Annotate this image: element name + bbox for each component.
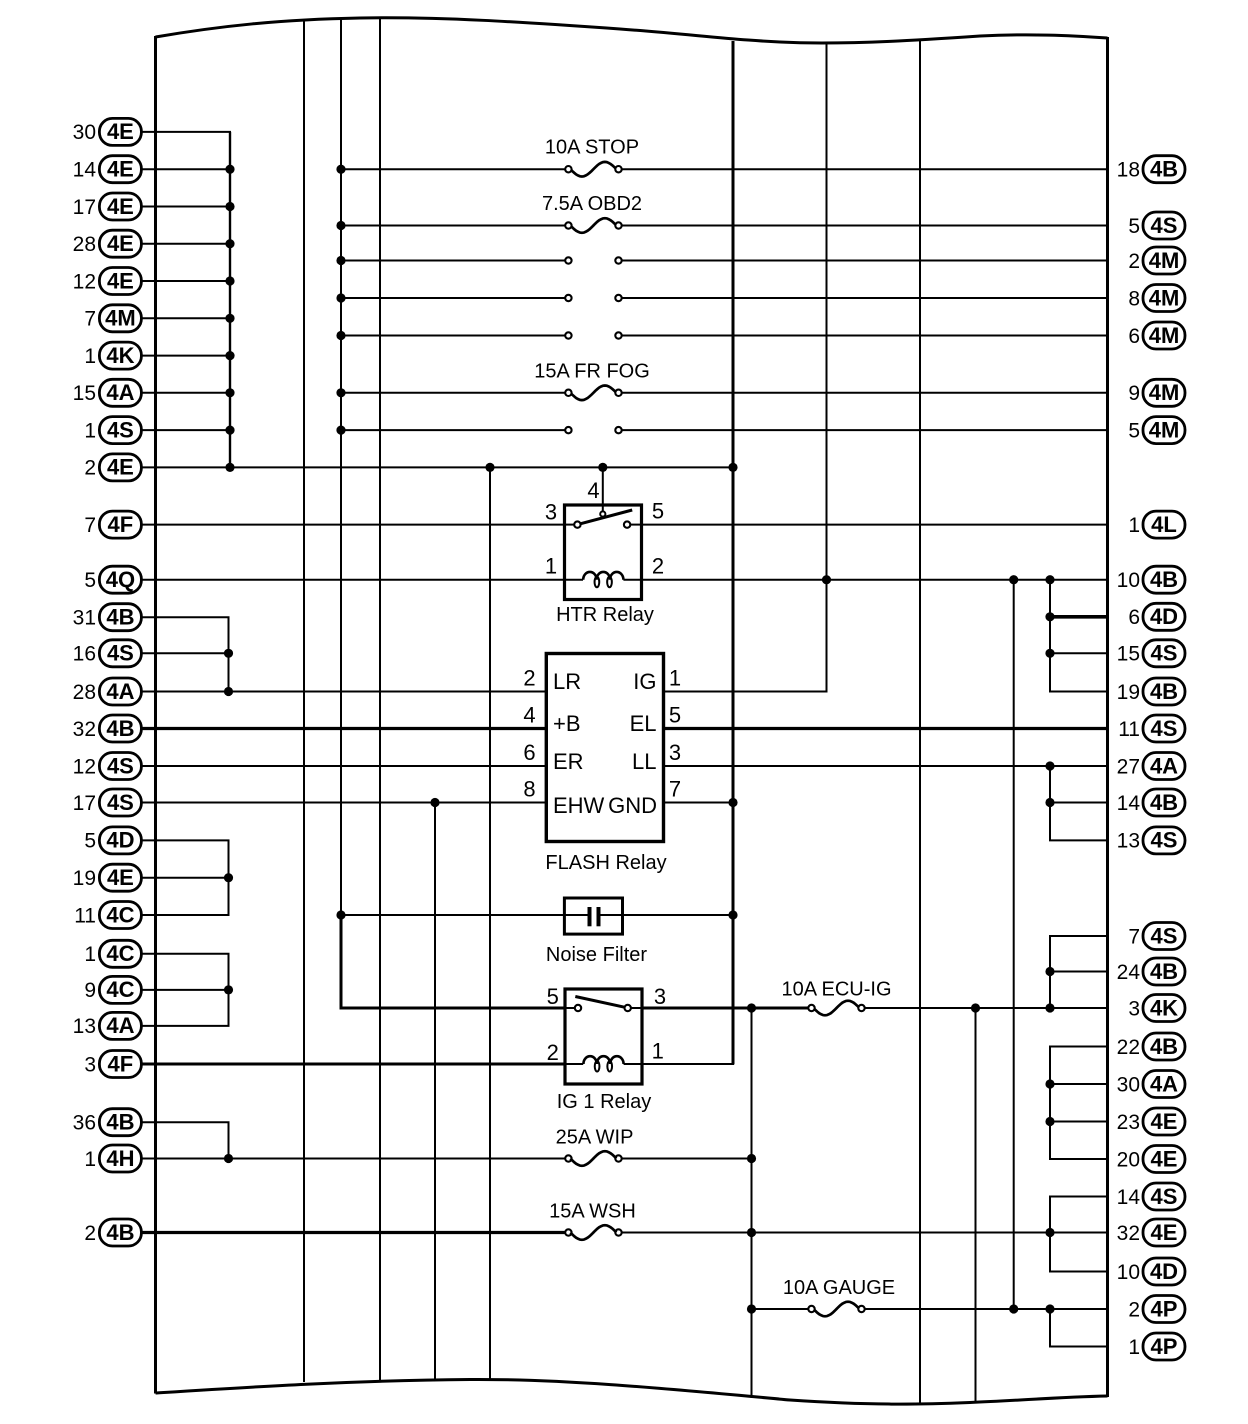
svg-text:23: 23: [1117, 1111, 1140, 1134]
wire HTR relay pin 4 from 2 4E row: [602, 467, 604, 514]
svg-text:1: 1: [84, 419, 96, 442]
wire 15 4S stub: [1049, 652, 1108, 654]
svg-text:4H: 4H: [106, 1146, 134, 1171]
svg-text:24: 24: [1117, 961, 1141, 984]
svg-text:6: 6: [523, 740, 535, 765]
fuse element fuse 15A FR FOG row: [570, 386, 616, 401]
wire empty fuse socket row (6 4M) left segment: [341, 335, 568, 337]
svg-text:4E: 4E: [107, 231, 134, 256]
wire fuse 15A FR FOG row left segment: [341, 392, 568, 394]
junction ECU-IG row / bracket B3: [1045, 1003, 1054, 1012]
terminal circle empty fuse socket row (8 4M) right: [615, 295, 621, 301]
connector 3 4K (R) y=1008.0: [1128, 995, 1185, 1022]
connector 3 4F (L) y=1064.0: [84, 1051, 141, 1078]
terminal circle empty fuse socket row (2 4M) left: [565, 257, 571, 263]
wire empty fuse socket row (8 4M) left segment: [341, 297, 568, 299]
wire fuse 15A WSH to 32 4E: [619, 1232, 1108, 1234]
svg-text:7: 7: [84, 514, 96, 537]
svg-text:2: 2: [84, 1222, 96, 1245]
connector 10 4D (R) y=1271.5: [1117, 1258, 1185, 1285]
svg-text:4E: 4E: [107, 194, 134, 219]
wire noise filter to V733: [600, 914, 733, 916]
connector 30 4A (R) y=1084.0: [1117, 1071, 1185, 1098]
wire vertical trunk V380 (pass-through top to bottom): [379, 18, 381, 1380]
junction V341 y=392.8: [336, 388, 345, 397]
svg-text:HTR Relay: HTR Relay: [556, 604, 654, 626]
junction bracket B1 6 4D: [1045, 612, 1054, 621]
svg-text:4M: 4M: [1149, 248, 1180, 273]
svg-text:17: 17: [73, 792, 96, 815]
wire empty fuse socket row (8 4M) right segment: [619, 297, 1108, 299]
wire vertical V826 + FLASH relay IG pin feed: [664, 42, 827, 692]
svg-text:19: 19: [73, 867, 96, 890]
connector 17 4S (L) y=802.5: [73, 789, 142, 816]
connector 5 4M (R) y=430.1: [1128, 417, 1185, 444]
svg-text:7: 7: [84, 308, 96, 331]
junction bracket A3 9 4C: [224, 985, 233, 994]
wire 2 4E row (to V733): [142, 466, 734, 468]
svg-text:2: 2: [1128, 1298, 1140, 1321]
svg-text:3: 3: [654, 984, 666, 1009]
connector 1 4L (R) y=524.6: [1128, 511, 1185, 538]
svg-text:4: 4: [587, 478, 599, 503]
wire 5 4Q row to HTR relay pin 1: [142, 579, 565, 581]
wire 23 4E stub: [1049, 1121, 1108, 1123]
junction bracket A1 y=653.3: [224, 649, 233, 658]
terminal circle 10A ECU-IG right: [858, 1005, 864, 1011]
wire 6 4D stub (bold): [1049, 615, 1108, 619]
svg-text:12: 12: [73, 755, 96, 778]
connector 7 4S (R) y=936.0: [1128, 923, 1185, 950]
junction ECU-IG row / V751: [747, 1003, 756, 1012]
IG 1 relay coil: [583, 1056, 623, 1071]
svg-text:FLASH Relay: FLASH Relay: [545, 852, 666, 874]
wire FLASH relay pin 5 EL to 11 4S (bold): [664, 727, 1108, 730]
svg-text:4P: 4P: [1151, 1334, 1178, 1359]
svg-text:15A WSH: 15A WSH: [549, 1201, 636, 1223]
connector 30 4E (L) y=131.9: [73, 118, 142, 145]
svg-text:IG 1 Relay: IG 1 Relay: [557, 1091, 651, 1113]
wire 30 4A stub: [1049, 1083, 1108, 1085]
junction V230 y=355.6: [225, 351, 234, 360]
svg-text:5: 5: [84, 569, 96, 592]
connector 13 4S (R) y=840.4: [1117, 827, 1185, 854]
svg-text:4S: 4S: [1151, 716, 1178, 741]
svg-text:5: 5: [1128, 419, 1140, 442]
junction GAUGE row / V1014: [1009, 1304, 1018, 1313]
junction V230 y=392.8: [225, 388, 234, 397]
svg-text:7: 7: [669, 777, 681, 802]
wire bracket left A2 (5 4D / 19 4E / 11 4C): [228, 840, 230, 915]
wire left connector row y=281.0 to V230: [142, 280, 232, 282]
svg-text:4C: 4C: [106, 902, 134, 927]
connector 1 4C (L) y=953.8: [84, 940, 141, 967]
svg-text:4: 4: [523, 703, 535, 728]
svg-text:4M: 4M: [105, 306, 136, 331]
svg-text:IG: IG: [633, 669, 656, 694]
wire left connector row y=131.9 to V230: [142, 131, 232, 133]
svg-text:19: 19: [1117, 681, 1140, 704]
connector 5 4D (L) y=840.4: [84, 827, 141, 854]
terminal circle empty fuse socket row (6 4M) left: [565, 332, 571, 338]
terminal circle 25A WIP left: [565, 1155, 571, 1161]
connector 8 4M (R) y=298.0: [1128, 285, 1185, 312]
connector 14 4B (R) y=802.5: [1117, 789, 1185, 816]
wire IG 1 relay pin 1 to V733: [642, 1063, 734, 1065]
wire 2 4B row to fuse 15A WSH (bold): [142, 1231, 566, 1234]
svg-text:4E: 4E: [1151, 1146, 1178, 1171]
junction 10 4B row / bracket B1: [1045, 575, 1054, 584]
svg-text:36: 36: [73, 1112, 96, 1135]
svg-text:4S: 4S: [1151, 923, 1178, 948]
wire HTR relay coil lead right: [623, 579, 641, 581]
HTR relay coil: [583, 572, 623, 587]
junction GAUGE row / bracket B6: [1045, 1304, 1054, 1313]
svg-text:4M: 4M: [1149, 417, 1180, 442]
terminal circle 15A WSH left: [565, 1229, 571, 1235]
svg-text:4M: 4M: [1149, 285, 1180, 310]
svg-text:22: 22: [1117, 1036, 1140, 1059]
svg-text:4B: 4B: [106, 1110, 134, 1135]
wire 13 4S stub: [1049, 839, 1108, 841]
svg-text:15A FR FOG: 15A FR FOG: [534, 361, 650, 383]
svg-text:12: 12: [73, 270, 96, 293]
wire vertical V435 (from EHW row down to bottom edge): [434, 803, 436, 1381]
junction GAUGE row / V751: [747, 1304, 756, 1313]
svg-text:7.5A OBD2: 7.5A OBD2: [542, 193, 642, 215]
wire bracket right B2 (27 4A / 14 4B / 13 4S): [1049, 766, 1051, 840]
terminal circle 25A WIP right: [615, 1155, 621, 1161]
svg-text:6: 6: [1128, 325, 1140, 348]
wire bracket left A3 (1 4C / 9 4C / 13 4A): [228, 954, 230, 1026]
connector 5 4Q (L) y=579.7: [84, 566, 141, 593]
wire left connector row y=318.3 to V230: [142, 317, 232, 319]
svg-text:4B: 4B: [1150, 959, 1178, 984]
svg-text:10A GAUGE: 10A GAUGE: [783, 1277, 895, 1299]
wire HTR relay pin 2 to 10 4B: [642, 579, 1108, 581]
wire 24 4B stub: [1049, 971, 1108, 973]
junction V341 y=169.2: [336, 165, 345, 174]
wire fuse 10A STOP row right segment: [619, 168, 1108, 170]
terminal circle fuse 7.5A OBD2 row right: [615, 222, 621, 228]
svg-text:20: 20: [1117, 1148, 1140, 1171]
svg-text:2: 2: [523, 666, 535, 691]
HTR relay contact pin 5: [624, 521, 630, 527]
wire 1 4H row to fuse 25A WIP: [142, 1158, 566, 1160]
connector 12 4S (L) y=766.0: [73, 753, 142, 780]
relay FLASH (8-pin box): [546, 654, 663, 842]
svg-text:4E: 4E: [107, 119, 134, 144]
junction V341 y=260.5: [336, 256, 345, 265]
svg-text:4B: 4B: [1150, 567, 1178, 592]
wire 11 4C stub to bracket A2: [142, 914, 230, 916]
svg-text:2: 2: [652, 554, 664, 579]
svg-text:14: 14: [1117, 792, 1141, 815]
svg-text:13: 13: [1117, 830, 1140, 853]
svg-text:4S: 4S: [107, 790, 134, 815]
svg-text:Noise Filter: Noise Filter: [546, 944, 647, 966]
terminal circle fuse 15A FR FOG row right: [615, 390, 621, 396]
connector 1 4H (L) y=1158.5: [84, 1145, 141, 1172]
wire bracket left A1 (31 4B / 16 4S / 28 4A): [228, 617, 230, 691]
terminal circle empty fuse socket row (6 4M) right: [615, 332, 621, 338]
svg-text:4S: 4S: [1151, 1184, 1178, 1209]
svg-text:2: 2: [1128, 250, 1140, 273]
wire 16 4S stub to bracket A1: [142, 652, 230, 654]
svg-text:+B: +B: [553, 711, 581, 736]
junction V230 y=206.5: [225, 202, 234, 211]
connector 32 4B (L) y=728.5: [73, 715, 142, 742]
connector 19 4E (L) y=877.7: [73, 864, 142, 891]
svg-text:28: 28: [73, 681, 96, 704]
connector 6 4D (R) y=616.8: [1128, 603, 1185, 630]
wire 1 4P stub: [1049, 1346, 1108, 1348]
svg-text:4B: 4B: [106, 716, 134, 741]
relay HTR (5-pin): [565, 505, 642, 600]
relay IG 1 (5-pin): [565, 989, 642, 1084]
svg-text:1: 1: [84, 1148, 96, 1171]
terminal circle fuse 15A FR FOG row left: [565, 390, 571, 396]
wire 13 4A stub to bracket A3: [142, 1025, 230, 1027]
connector 7 4F (L) y=524.6: [84, 511, 141, 538]
terminal circle 10A GAUGE right: [858, 1306, 864, 1312]
junction LL row / bracket B2: [1045, 761, 1054, 770]
svg-text:2: 2: [547, 1040, 559, 1065]
fuse element 10A GAUGE: [814, 1302, 860, 1317]
connector 1 4K (L) y=355.6: [84, 342, 141, 369]
wire empty fuse socket row (5 4M) left segment: [341, 429, 568, 431]
junction V230 y=281.0: [225, 276, 234, 285]
connector 6 4M (R) y=335.5: [1128, 322, 1185, 349]
svg-text:LR: LR: [553, 669, 581, 694]
svg-text:15: 15: [73, 382, 96, 405]
junction bracket B4 30 4A: [1045, 1079, 1054, 1088]
wire 19 4B stub: [1049, 691, 1108, 693]
svg-text:EHW: EHW: [553, 793, 605, 818]
wire FLASH relay pin 3 LL to 27 4A: [664, 765, 1108, 767]
terminal circle fuse 10A STOP row right: [615, 166, 621, 172]
svg-text:8: 8: [1128, 287, 1140, 310]
connector 32 4E (R) y=1232.5: [1117, 1219, 1185, 1246]
wire bracket left A4 (36 4B / 1 4H): [228, 1122, 230, 1158]
connector 1 4S (L) y=430.1: [84, 417, 141, 444]
connector 17 4E (L) y=206.5: [73, 193, 142, 220]
svg-text:10A STOP: 10A STOP: [545, 137, 639, 159]
svg-text:GND: GND: [608, 793, 657, 818]
junction 10 4B row / V1014: [1009, 575, 1018, 584]
connector 18 4B (R) y=169.2: [1117, 156, 1185, 183]
wire IG 1 relay coil lead left: [565, 1063, 583, 1065]
junction bracket A1 y=691.5: [224, 687, 233, 696]
junction block outline top edge (wavy): [156, 18, 1108, 43]
wire bracket right B6 (2 4P / 1 4P): [1049, 1309, 1051, 1347]
junction 2 4E row / V733: [728, 463, 737, 472]
junction V230 y=467.4: [225, 463, 234, 472]
wire bracket right B4 (22 4B / 30 4A / 23 4E / 20 4E): [1049, 1047, 1051, 1160]
wire 28 4A row to FLASH relay pin 2 LR: [142, 691, 547, 693]
connector 12 4E (L) y=281.0: [73, 268, 142, 295]
svg-text:3: 3: [669, 740, 681, 765]
junction block outline left edge: [154, 36, 157, 1394]
IG 1 relay contact pin 5: [575, 1005, 581, 1011]
svg-text:6: 6: [1128, 606, 1140, 629]
terminal circle fuse 7.5A OBD2 row left: [565, 222, 571, 228]
svg-text:4A: 4A: [106, 679, 134, 704]
connector 20 4E (R) y=1159.0: [1117, 1146, 1185, 1173]
junction V230 y=430.1: [225, 426, 234, 435]
junction WIP row / V751: [747, 1154, 756, 1163]
svg-text:15: 15: [1117, 643, 1140, 666]
terminal circle 10A ECU-IG left: [808, 1005, 814, 1011]
fuse element fuse 10A STOP row: [570, 162, 616, 177]
connector 11 4C (L) y=915.0: [74, 902, 141, 929]
terminal circle empty fuse socket row (8 4M) left: [565, 295, 571, 301]
junction bracket B2 14 4B: [1045, 798, 1054, 807]
wire 31 4B stub to bracket A1: [142, 616, 230, 618]
svg-text:18: 18: [1117, 159, 1140, 182]
svg-text:2: 2: [84, 457, 96, 480]
wire left connector row y=206.5 to V230: [142, 206, 232, 208]
wire bracket right B1 (10 4B / 6 4D / 15 4S / 19 4B): [1049, 580, 1051, 692]
svg-text:ER: ER: [553, 749, 584, 774]
connector 22 4B (R) y=1046.5: [1117, 1033, 1185, 1060]
terminal circle empty fuse socket row (2 4M) right: [615, 257, 621, 263]
svg-text:4M: 4M: [1149, 380, 1180, 405]
fuse element fuse 7.5A OBD2 row: [570, 218, 616, 233]
connector 15 4S (R) y=653.3: [1117, 640, 1185, 667]
svg-text:4E: 4E: [1151, 1220, 1178, 1245]
svg-text:4B: 4B: [106, 605, 134, 630]
svg-text:32: 32: [73, 718, 96, 741]
svg-text:14: 14: [1117, 1186, 1141, 1209]
svg-text:4D: 4D: [1150, 604, 1178, 629]
junction 2 4E row / V490: [485, 463, 494, 472]
connector 23 4E (R) y=1121.5: [1117, 1108, 1185, 1135]
svg-text:10: 10: [1117, 1261, 1140, 1284]
svg-text:4L: 4L: [1151, 512, 1177, 537]
svg-text:4S: 4S: [107, 753, 134, 778]
wire fuse 10A STOP row left segment: [341, 168, 568, 170]
svg-text:4B: 4B: [106, 1220, 134, 1245]
IG 1 relay contact pin 3: [625, 1005, 631, 1011]
svg-text:4B: 4B: [1150, 1034, 1178, 1059]
svg-text:8: 8: [523, 777, 535, 802]
wire left connector row y=430.1 to V230: [142, 429, 232, 431]
connector 14 4S (R) y=1196.5: [1117, 1183, 1185, 1210]
junction WSH row / bracket B5 32 4E: [1045, 1228, 1054, 1237]
svg-text:32: 32: [1117, 1222, 1140, 1245]
svg-text:LL: LL: [632, 749, 656, 774]
svg-text:4P: 4P: [1151, 1296, 1178, 1321]
svg-text:4D: 4D: [106, 828, 134, 853]
svg-text:7: 7: [1128, 925, 1140, 948]
wire 22 4B stub: [1049, 1046, 1108, 1048]
svg-text:4A: 4A: [106, 1013, 134, 1038]
svg-text:1: 1: [669, 666, 681, 691]
wire empty fuse socket row (6 4M) right segment: [619, 335, 1108, 337]
wire HTR relay pin 5 to 1 4L: [642, 524, 1108, 526]
wire 10 4D stub: [1049, 1271, 1108, 1273]
wire HTR relay pin 5 inside: [631, 524, 642, 526]
wire IG 1 relay coil lead right: [624, 1063, 642, 1065]
wire 20 4E stub: [1049, 1158, 1108, 1160]
wire 32 4B row to FLASH relay pin 4 +B (bold): [142, 727, 547, 730]
connector 14 4E (L) y=169.2: [73, 156, 142, 183]
svg-text:4K: 4K: [106, 343, 134, 368]
wire 14 4B stub: [1049, 802, 1108, 804]
wire vertical V341 upper (fuse supply bus): [340, 18, 342, 915]
svg-text:1: 1: [545, 554, 557, 579]
junction EHW row / V435: [430, 798, 439, 807]
fuse element 25A WIP: [570, 1151, 616, 1166]
svg-text:5: 5: [669, 703, 681, 728]
connector 10 4B (R) y=579.7: [1117, 566, 1185, 593]
connector 28 4E (L) y=243.7: [73, 230, 142, 257]
wire bracket right B3 (7 4S / 24 4B / 3 4K): [1049, 936, 1051, 1008]
connector 31 4B (L) y=617.2: [73, 604, 142, 631]
svg-text:10A ECU-IG: 10A ECU-IG: [781, 979, 891, 1001]
svg-text:4Q: 4Q: [106, 567, 135, 592]
junction WSH row / V751: [747, 1228, 756, 1237]
svg-text:9: 9: [84, 979, 96, 1002]
wire V751 to fuse 10A GAUGE: [752, 1308, 812, 1310]
junction GND row / V733: [728, 798, 737, 807]
wire 12 4S row to FLASH relay pin 6 ER: [142, 765, 547, 767]
svg-text:9: 9: [1128, 382, 1140, 405]
svg-text:1: 1: [84, 345, 96, 368]
wire 17 4S row to FLASH relay pin 8 EHW: [142, 802, 547, 804]
svg-text:EL: EL: [630, 711, 657, 736]
svg-text:28: 28: [73, 233, 96, 256]
wire left connector row y=243.7 to V230: [142, 243, 232, 245]
connector 15 4A (L) y=392.8: [73, 379, 142, 406]
svg-text:3: 3: [545, 500, 557, 525]
wire 3 4F row to IG 1 relay pin 2 (bold): [142, 1063, 566, 1066]
svg-text:4A: 4A: [1150, 753, 1178, 778]
wire fuse 7.5A OBD2 row left segment: [341, 225, 568, 227]
svg-text:4E: 4E: [107, 865, 134, 890]
junction V341 y=430.1: [336, 426, 345, 435]
wire HTR relay pin 3 inside: [565, 524, 575, 526]
wire vertical V1014 (10 4B row down to GAUGE row): [1013, 580, 1015, 1309]
connector 16 4S (L) y=653.3: [73, 640, 142, 667]
svg-text:4F: 4F: [108, 512, 134, 537]
wire IG 1 relay pin 3 to fuse 10A ECU-IG (bold): [642, 1007, 812, 1010]
junction V341 y=335.5: [336, 331, 345, 340]
junction V341 y=915.0: [336, 910, 345, 919]
HTR relay contact pin 3: [574, 521, 580, 527]
connector 27 4A (R) y=766.0: [1117, 753, 1185, 780]
terminal circle fuse 10A STOP row left: [565, 166, 571, 172]
wire vertical V341 lower + feed to IG 1 relay pin 5 (bold): [341, 914, 565, 1008]
svg-text:16: 16: [73, 643, 96, 666]
junction bracket B3 24 4B: [1045, 967, 1054, 976]
wire 7 4F row to HTR relay pin 3: [142, 524, 565, 526]
wire fuse 10A ECU-IG to 3 4K: [862, 1007, 1108, 1009]
IG 1 relay switch blade: [575, 997, 625, 1008]
fuse element 15A WSH: [570, 1225, 616, 1240]
svg-text:4S: 4S: [1151, 213, 1178, 238]
svg-text:14: 14: [73, 159, 97, 182]
svg-text:11: 11: [74, 904, 96, 927]
svg-text:4A: 4A: [1150, 1071, 1178, 1096]
svg-text:4E: 4E: [107, 455, 134, 480]
wire left connector row y=169.2 to V230: [142, 168, 232, 170]
wire vertical V733 (bold: top edge down to IG 1 relay pin 1 row): [732, 41, 735, 1064]
junction ECU-IG row / V975: [971, 1003, 980, 1012]
junction noise filter / V733: [728, 910, 737, 919]
connector 2 4P (R) y=1309.0: [1128, 1296, 1185, 1323]
